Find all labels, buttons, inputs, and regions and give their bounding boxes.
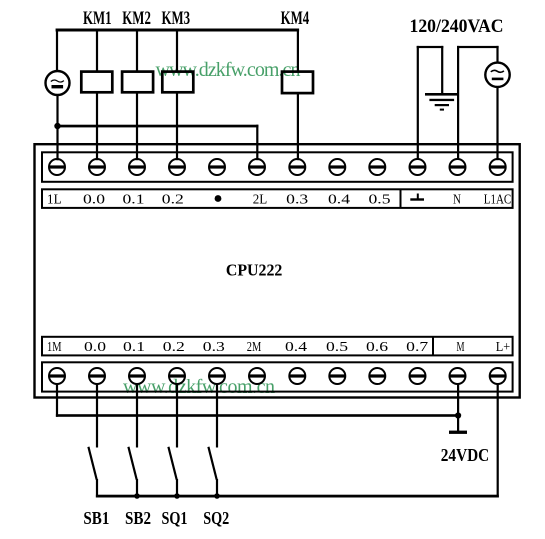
svg-text:0.5: 0.5 xyxy=(326,340,348,355)
svg-text:0.3: 0.3 xyxy=(286,193,308,208)
terminal 0.4 (top) xyxy=(329,159,345,175)
svg-text:KM4: KM4 xyxy=(281,9,310,29)
wire PE top link xyxy=(417,46,444,48)
wire G2 to L1AC xyxy=(496,87,498,161)
svg-text:L+: L+ xyxy=(496,340,511,355)
terminal 0.5 (bottom) xyxy=(329,368,345,384)
wire 1M rail xyxy=(56,414,459,417)
switch SQ2 wire bottom xyxy=(216,479,218,498)
terminal 0.2 (bottom) xyxy=(169,368,185,384)
terminal 0.3 (bottom) xyxy=(209,368,225,384)
AC source G1 circle xyxy=(46,71,70,95)
junction node at 1L branch xyxy=(54,123,60,129)
junction node M rail xyxy=(455,412,461,418)
svg-text:0.5: 0.5 xyxy=(369,193,391,208)
svg-text:0.1: 0.1 xyxy=(123,193,145,208)
PLC outer box xyxy=(35,144,520,397)
svg-text:KM3: KM3 xyxy=(162,9,191,29)
svg-text:SB2: SB2 xyxy=(125,508,151,528)
terminal 0.7 (bottom) xyxy=(410,368,426,384)
terminal 1M (bottom) xyxy=(49,368,65,384)
coil KM4 xyxy=(282,72,313,94)
terminal 0.4 (bottom) xyxy=(289,368,305,384)
wire KM3 bottom xyxy=(176,93,178,161)
svg-text:M: M xyxy=(457,340,465,355)
junction node SQ2 xyxy=(214,493,220,499)
wire AC source drop xyxy=(56,29,58,72)
AC source G1 bar xyxy=(52,85,64,88)
switch SB1 blade xyxy=(88,447,96,480)
wire to AC source G2 xyxy=(496,46,498,63)
switch SQ1 wire bottom xyxy=(176,479,178,498)
wire to earth xyxy=(441,46,443,94)
coil KM2 xyxy=(122,72,153,93)
wire horizontal to 2L xyxy=(56,125,258,128)
terminal L1AC (top) xyxy=(490,159,506,175)
svg-text:0.4: 0.4 xyxy=(285,340,307,355)
svg-text:0.0: 0.0 xyxy=(83,193,105,208)
svg-text:SQ2: SQ2 xyxy=(203,508,229,528)
earth ground bar3 xyxy=(435,104,449,106)
svg-text:0.3: 0.3 xyxy=(203,340,225,355)
svg-text:www.dzkfw.com.cn: www.dzkfw.com.cn xyxy=(123,376,275,398)
24VDC return bar xyxy=(449,431,467,434)
switch SQ2 blade xyxy=(208,447,216,480)
PLC top terminal box xyxy=(42,152,513,182)
wire KM2 bottom xyxy=(136,93,138,161)
terminal 0.3 (top) xyxy=(289,159,305,175)
svg-text:0.7: 0.7 xyxy=(406,340,428,355)
coil KM3 xyxy=(162,72,193,93)
wire G1 to junction xyxy=(56,95,58,161)
terminal 0.5 (top) xyxy=(369,159,385,175)
svg-text:L1AC: L1AC xyxy=(484,193,512,208)
svg-text:N: N xyxy=(453,193,461,208)
terminal 0.1 (top) xyxy=(129,159,145,175)
switch SB2 blade xyxy=(128,447,136,480)
wire KM1 top xyxy=(96,29,98,72)
svg-text:2M: 2M xyxy=(247,340,262,355)
terminal 0.0 (bottom) xyxy=(89,368,105,384)
terminal 0.6 (bottom) xyxy=(369,368,385,384)
switch SQ1 wire top xyxy=(176,384,178,448)
wire M down xyxy=(457,384,459,431)
terminal M (bottom) xyxy=(450,368,466,384)
svg-text:2L: 2L xyxy=(253,193,268,208)
svg-text:0.2: 0.2 xyxy=(163,340,185,355)
switch SQ1 blade xyxy=(168,447,176,480)
earth ground bar1 xyxy=(425,93,458,96)
svg-text:0.2: 0.2 xyxy=(162,193,184,208)
junction node SB2 xyxy=(134,493,140,499)
terminal 0.2 (top) xyxy=(169,159,185,175)
wire KM3 top xyxy=(176,29,178,72)
terminal 2M (bottom) xyxy=(249,368,265,384)
wire 1M down xyxy=(56,384,58,417)
label PE symbol xyxy=(417,194,419,200)
AC source G2 bar xyxy=(492,78,504,81)
wire KM1 bottom xyxy=(96,93,98,161)
wire N top link xyxy=(457,46,499,48)
svg-text:1M: 1M xyxy=(47,340,62,355)
switch SB1 wire top xyxy=(96,384,98,448)
switch SB1 wire bottom xyxy=(96,479,98,498)
terminal 2L (top) xyxy=(249,159,265,175)
coil KM1 xyxy=(81,72,112,93)
terminal 0.1 (bottom) xyxy=(129,368,145,384)
label-row divider (bottom) xyxy=(432,337,434,356)
switch SQ2 wire top xyxy=(216,384,218,448)
PLC top label box xyxy=(42,189,513,208)
label dot xyxy=(215,195,222,202)
svg-text:24VDC: 24VDC xyxy=(441,445,490,465)
terminal N (top) xyxy=(450,159,466,175)
PLC bottom terminal box xyxy=(42,362,513,391)
switch SB2 wire bottom xyxy=(136,479,138,498)
svg-text:120/240VAC: 120/240VAC xyxy=(410,16,504,37)
wire PE drop xyxy=(417,46,419,160)
svg-text:1L: 1L xyxy=(47,193,62,208)
AC source G2 circle xyxy=(485,63,509,87)
wire top bus xyxy=(56,29,300,32)
svg-text:SB1: SB1 xyxy=(83,508,109,528)
wire L+ down xyxy=(497,384,499,497)
switch SB2 wire top xyxy=(136,384,138,448)
svg-text:0.0: 0.0 xyxy=(84,340,106,355)
wire KM4 bottom xyxy=(297,93,299,160)
terminal 1L (top) xyxy=(49,159,65,175)
terminal spare (top) xyxy=(209,159,225,175)
svg-text:CPU222: CPU222 xyxy=(226,261,283,280)
AC source G1 tilde xyxy=(51,80,64,82)
AC source G2 tilde xyxy=(491,70,504,72)
wire KM4 top xyxy=(297,29,299,72)
wire KM2 top xyxy=(136,29,138,72)
PLC bottom label box xyxy=(42,337,513,356)
svg-text:SQ1: SQ1 xyxy=(162,508,188,528)
wire N drop xyxy=(457,46,459,160)
terminal L+ (bottom) xyxy=(490,368,506,384)
junction node SQ1 xyxy=(174,493,180,499)
terminal 0.0 (top) xyxy=(89,159,105,175)
terminal PE (top) xyxy=(410,159,426,175)
label-row divider (top) xyxy=(400,189,402,208)
earth ground bar4 xyxy=(440,109,444,111)
svg-text:0.6: 0.6 xyxy=(366,340,388,355)
earth ground bar2 xyxy=(429,99,454,101)
svg-text:0.4: 0.4 xyxy=(328,193,350,208)
svg-text:KM1: KM1 xyxy=(83,9,112,29)
svg-text:KM2: KM2 xyxy=(122,9,151,29)
wire down to 2L xyxy=(256,125,258,161)
svg-text:0.1: 0.1 xyxy=(123,340,145,355)
